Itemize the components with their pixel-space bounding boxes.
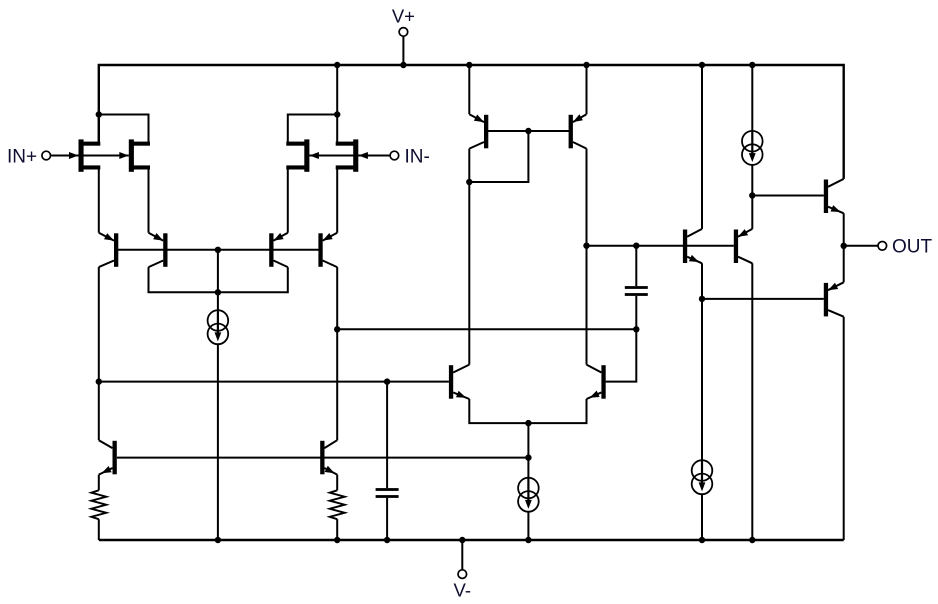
wire Q1 collector down bbox=[98, 267, 100, 382]
wire Q5 collector-base tie bbox=[469, 131, 528, 182]
wire Qb1 emitter bbox=[98, 475, 100, 491]
capacitor C2 bbox=[376, 488, 399, 491]
gate arrow J1 bbox=[69, 152, 79, 159]
terminal V- bbox=[461, 540, 463, 570]
capacitor C1 (compensation) bbox=[625, 286, 648, 289]
current source I3 (top bias) bbox=[742, 131, 763, 152]
svg-text:V-: V- bbox=[454, 579, 471, 600]
node V- rail junction x337 bbox=[334, 537, 340, 543]
wire Q12 emitter to OUT bbox=[843, 213, 845, 246]
svg-text:OUT: OUT bbox=[892, 237, 933, 258]
node V+ rail junction bbox=[400, 62, 406, 68]
node base line left junction bbox=[96, 378, 102, 384]
node rail junction x752 bbox=[749, 62, 755, 68]
wire Q6 collector down to Q8 bbox=[586, 149, 588, 365]
resistor R1 bbox=[91, 490, 106, 519]
wire mirror-to-cap link bbox=[337, 328, 636, 330]
transistor Q8 (NPN second stage) bbox=[601, 365, 605, 399]
wire Q11 base line bbox=[702, 298, 824, 300]
wire I2 to V- rail bbox=[527, 512, 529, 540]
terminal IN- bbox=[390, 151, 399, 160]
JFET J3 (IN- input pair) bbox=[304, 139, 309, 171]
transistor Q4 (PNP cascode) bbox=[318, 233, 322, 266]
node x337 y329 junction bbox=[334, 326, 340, 332]
wire driver base line bbox=[587, 245, 734, 247]
wire C2 to rail bbox=[386, 498, 388, 540]
node inner collector junction bbox=[215, 289, 221, 295]
wire J4 drain to rail bbox=[336, 65, 338, 144]
wire Qb2 emitter bbox=[336, 475, 338, 491]
wire Q10 collector to rail bbox=[751, 263, 753, 540]
wire Q9 collector to rail bbox=[701, 65, 703, 229]
node Q9 emitter junction bbox=[699, 296, 705, 302]
wire Q5 emitter from rail bbox=[468, 65, 470, 114]
gate arrow J3 bbox=[309, 152, 319, 159]
wire J3-J4 drain link bbox=[288, 115, 337, 144]
node V- rail junction x702 bbox=[699, 537, 705, 543]
node tail/base-line junction bbox=[525, 454, 531, 460]
wire Q3 collector down bbox=[218, 267, 288, 292]
node C1 top junction bbox=[633, 243, 639, 249]
wire J1 source down bbox=[98, 170, 100, 233]
wire Q7/Q8 emitter join bbox=[469, 399, 586, 423]
transistor Q5 (PNP mirror, diode-connected) bbox=[484, 115, 488, 149]
wire R2 to rail bbox=[336, 519, 338, 540]
node J3/J4 drain junction bbox=[334, 111, 340, 117]
wire second stage tail bbox=[527, 423, 529, 478]
transistor Q10 (PNP driver) bbox=[734, 230, 738, 264]
JFET J1 (IN+ input pair) bbox=[79, 139, 84, 171]
wire J3 source down bbox=[287, 170, 289, 233]
wire C1 bottom bbox=[635, 296, 637, 329]
transistor Q1 (PNP cascode) bbox=[114, 233, 118, 266]
node I3/Q12 base junction bbox=[749, 192, 755, 198]
transistor Q3 (PNP cascode) bbox=[269, 233, 273, 266]
wire I3 down to Q10 emitter bbox=[751, 165, 753, 229]
wire CS3 from rail bbox=[751, 65, 753, 131]
node V- rail junction x462 bbox=[459, 537, 465, 543]
terminal OUT bbox=[878, 242, 887, 251]
wire IN- gate line bbox=[309, 155, 390, 157]
node V- rail junction x752 bbox=[749, 537, 755, 543]
wire J1-J2 drain link bbox=[99, 115, 149, 144]
transistor Q9 (NPN driver) bbox=[683, 230, 687, 264]
wire Q8 base from cap node bbox=[606, 329, 637, 381]
transistor Q7 (NPN second stage) bbox=[449, 365, 453, 399]
wire Q5-Q6 base line bbox=[486, 130, 571, 132]
gate arrow J4 bbox=[358, 152, 368, 159]
wire mirror base line bbox=[117, 457, 529, 459]
svg-text:IN+: IN+ bbox=[7, 146, 37, 167]
wire Q11 collector to rail bbox=[843, 317, 845, 540]
JFET J2 (IN+ input pair) bbox=[129, 139, 134, 171]
node V- rail junction x217 bbox=[215, 537, 221, 543]
wire C1 top bbox=[635, 246, 637, 286]
node rail junction x702 bbox=[699, 62, 705, 68]
wire Q6 emitter from rail bbox=[586, 65, 588, 114]
transistor Q14 (NPN mirror right) bbox=[320, 441, 324, 475]
wire IN+ gate line bbox=[51, 155, 129, 157]
wire OUT stub bbox=[844, 245, 878, 247]
wire Q4 collector down bbox=[336, 267, 338, 329]
wire Q12 base line bbox=[752, 195, 824, 197]
node emitter join junction bbox=[525, 420, 531, 426]
wire cascode base line bbox=[116, 249, 320, 251]
node rail junction x337 bbox=[334, 62, 340, 68]
JFET J4 (IN- input pair) bbox=[353, 139, 358, 171]
node Q5 collector junction bbox=[466, 179, 472, 185]
transistor Q12 (PNP output bottom) bbox=[824, 283, 828, 317]
node x636 y329 junction bbox=[633, 326, 639, 332]
terminal V+ bbox=[402, 36, 404, 65]
svg-text:IN-: IN- bbox=[405, 146, 430, 167]
current source I1 (input tail) bbox=[208, 310, 229, 331]
wire I4 to rail bbox=[701, 494, 703, 540]
wire input tail bbox=[217, 250, 219, 310]
wire V- rail (bottom supply bus) bbox=[99, 539, 844, 541]
node cascode base/tail junction bbox=[215, 247, 221, 253]
node rail junction x469 bbox=[466, 62, 472, 68]
wire J1 drain to rail bbox=[98, 115, 100, 144]
node OUT junction bbox=[841, 243, 847, 249]
wire second stage base line bbox=[99, 381, 449, 383]
wire Q2 collector down bbox=[149, 267, 218, 292]
wire OUT to Q11 emitter bbox=[843, 246, 845, 282]
wire C2 top bbox=[386, 382, 388, 489]
svg-text:V+: V+ bbox=[392, 6, 415, 27]
transistor Q13 (NPN mirror left) bbox=[113, 441, 117, 475]
node J1/J2 drain junction bbox=[96, 111, 102, 117]
wire V+ rail (top supply bus) bbox=[99, 65, 844, 179]
transistor Q6 (PNP mirror) bbox=[569, 115, 573, 149]
resistor R2 bbox=[330, 490, 345, 519]
wire Q5 collector down to Q7 bbox=[468, 182, 470, 365]
current source I4 (output bias) bbox=[692, 460, 713, 481]
node Q6 collector / output-stage base junction bbox=[583, 243, 589, 249]
node V- rail junction x387 bbox=[384, 537, 390, 543]
wire Qb2 collector down bbox=[336, 329, 338, 440]
current source I2 (second stage tail) bbox=[518, 478, 539, 499]
wire J2 source down bbox=[148, 170, 150, 233]
wire J4 source down bbox=[336, 170, 338, 233]
node Q5/Q6 base junction bbox=[525, 128, 531, 134]
wire Q9 emitter down bbox=[701, 263, 703, 460]
wire I1 to V- rail bbox=[217, 344, 219, 540]
gate arrow J2 bbox=[119, 152, 129, 159]
node rail junction x586 bbox=[583, 62, 589, 68]
transistor Q2 (PNP cascode) bbox=[163, 233, 167, 266]
terminal IN+ bbox=[42, 151, 51, 160]
wire R1 to rail bbox=[98, 519, 100, 540]
node base line cap junction bbox=[384, 378, 390, 384]
wire Qb1 collector down bbox=[98, 382, 100, 441]
node V- rail junction x528 bbox=[525, 537, 531, 543]
transistor Q11 (NPN output top) bbox=[824, 180, 828, 214]
